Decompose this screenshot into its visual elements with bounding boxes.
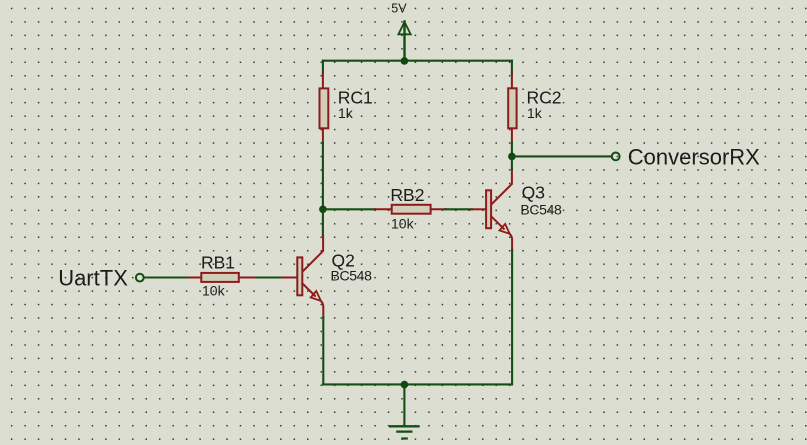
power +5V symbol	[398, 22, 410, 61]
svg-text:1k: 1k	[527, 105, 543, 121]
wire node A to Q2 collector	[322, 209, 324, 236]
wire node B to Q3 collector	[511, 156, 513, 169]
resistor RB1	[189, 273, 256, 282]
svg-text:Q3: Q3	[522, 182, 545, 202]
wire RC1 to node A	[322, 143, 324, 210]
wire RB2 to Q3 base	[445, 208, 472, 210]
svg-text:RB2: RB2	[390, 185, 424, 205]
resistor RB2	[375, 205, 446, 214]
wire ground stub	[403, 385, 405, 426]
resistor RC2	[508, 74, 516, 144]
svg-text:1k: 1k	[338, 105, 354, 121]
svg-text:UartTX: UartTX	[58, 265, 128, 290]
wire Q2 emitter to bottom rail	[322, 317, 324, 384]
wire VCC rail to RC1	[322, 61, 324, 74]
wire VCC rail to RC2	[511, 61, 513, 74]
svg-text:5V: 5V	[391, 1, 407, 15]
wire node B to terminal ConversorRX	[512, 155, 611, 157]
wire RC2 to node B	[511, 143, 513, 157]
wire VCC top rail	[323, 60, 512, 62]
svg-text:BC548: BC548	[331, 268, 373, 284]
wire node A to RB2	[323, 208, 375, 210]
wire bottom rail	[323, 383, 512, 385]
wire RB1 to Q2 base	[256, 276, 283, 278]
svg-text:BC548: BC548	[520, 201, 562, 217]
terminal ConversorRX	[612, 153, 620, 161]
transistor Q3	[472, 168, 513, 250]
svg-text:10k: 10k	[391, 215, 415, 231]
junction node B	[508, 153, 516, 161]
wire Q3 emitter to bottom rail	[511, 250, 513, 384]
junction VCC/5V	[401, 57, 409, 65]
svg-text:RB1: RB1	[201, 253, 235, 273]
junction node A	[319, 206, 327, 214]
resistor RC1	[320, 74, 329, 144]
ground	[390, 426, 418, 438]
terminal UartTX	[136, 274, 144, 282]
transistor Q2	[283, 236, 324, 318]
svg-text:10k: 10k	[202, 283, 226, 299]
wire terminal UartTX to RB1	[144, 276, 190, 278]
svg-text:ConversorRX: ConversorRX	[628, 145, 760, 170]
junction ground node	[401, 381, 409, 389]
